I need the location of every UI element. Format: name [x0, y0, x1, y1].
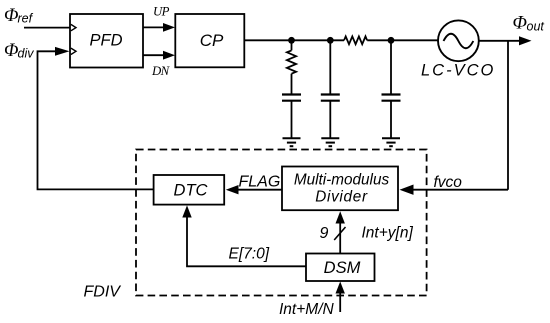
svg-text:Φ: Φ	[4, 40, 18, 61]
wire feedback horizontal to divider	[411, 189, 508, 191]
svg-text:E[7:0]: E[7:0]	[229, 246, 270, 263]
svg-text:Φ: Φ	[513, 13, 527, 34]
CP block	[175, 14, 244, 67]
wire FLAG divider to DTC	[237, 189, 282, 191]
capacitor C3	[382, 95, 401, 138]
ground (node B branch)	[321, 138, 339, 146]
svg-text:DN: DN	[151, 64, 171, 78]
svg-text:Int+M/N: Int+M/N	[279, 301, 335, 318]
wire DN PFD to CP	[143, 54, 164, 56]
svg-text:Multi-modulus: Multi-modulus	[294, 172, 390, 189]
wire Phi_ref to PFD	[24, 27, 70, 29]
capacitor C2	[321, 95, 340, 138]
arrowhead E[7:0] into DTC bottom	[182, 205, 191, 217]
svg-text:DTC: DTC	[174, 182, 208, 200]
arrowhead into DSM bottom	[336, 282, 345, 294]
wire after R2 to VCO	[367, 39, 438, 41]
oscillator U1 LC-VCO	[421, 20, 495, 79]
wire UP PFD to CP	[143, 26, 164, 28]
resistor R2 (horizontal, in line)	[344, 36, 367, 44]
label Phi_div	[4, 40, 34, 61]
svg-text:fvco: fvco	[434, 174, 463, 191]
arrowhead into divider bottom	[336, 211, 345, 223]
arrowhead DN into CP	[163, 51, 175, 60]
svg-text:Int+y[n]: Int+y[n]	[362, 225, 414, 242]
svg-text:CP: CP	[200, 31, 224, 50]
ground (node C branch)	[382, 138, 400, 146]
arrowhead into PFD div input	[55, 47, 70, 56]
PFD block	[70, 14, 143, 68]
node A junction dot	[288, 37, 295, 44]
svg-text:div: div	[18, 47, 35, 61]
label Phi_ref	[4, 5, 34, 26]
arrowhead UP into CP	[163, 23, 175, 32]
wire VCO output	[479, 40, 521, 42]
arrowhead Phi_out	[519, 36, 532, 45]
svg-text:DSM: DSM	[324, 259, 361, 277]
svg-text:PFD: PFD	[90, 32, 123, 50]
wire feedback vertical from output to fvco	[507, 41, 509, 190]
svg-text:Divider: Divider	[315, 189, 368, 206]
svg-text:UP: UP	[153, 4, 170, 18]
svg-text:out: out	[527, 20, 545, 34]
DSM block	[306, 254, 375, 282]
svg-text:FLAG: FLAG	[239, 174, 281, 191]
resistor R1 (vertical at node A)	[287, 40, 296, 93]
svg-text:LC-VCO: LC-VCO	[421, 62, 495, 80]
capacitor C1	[282, 95, 301, 138]
arrowhead FLAG into DTC	[226, 185, 239, 194]
svg-text:FDIV: FDIV	[84, 284, 122, 301]
svg-text:ref: ref	[18, 12, 34, 26]
svg-text:9: 9	[320, 225, 329, 242]
arrowhead fvco into divider	[400, 185, 414, 195]
wire E[7:0] DSM to DTC	[187, 216, 306, 266]
clock chevron pin (ref input)	[71, 24, 76, 30]
wire Int+M/N input	[339, 293, 341, 313]
node B junction dot	[327, 37, 334, 44]
wire node B down	[329, 40, 331, 93]
node C junction dot	[388, 37, 395, 44]
svg-text:Φ: Φ	[4, 5, 18, 26]
FDIV dashed box	[136, 150, 427, 296]
wire CP output to VCO	[244, 39, 344, 41]
DTC block	[154, 175, 225, 205]
wire DSM to divider	[339, 223, 341, 254]
wire DTC output feedback (left, up to PFD div input)	[38, 51, 154, 189]
clock chevron pin (div input)	[71, 48, 76, 54]
label Phi_out	[513, 13, 545, 34]
divider U2 Multi-modulus Divider block	[282, 167, 398, 211]
bus width slash	[334, 227, 345, 240]
ground (node A branch)	[283, 138, 301, 146]
wire node C down	[390, 40, 392, 93]
